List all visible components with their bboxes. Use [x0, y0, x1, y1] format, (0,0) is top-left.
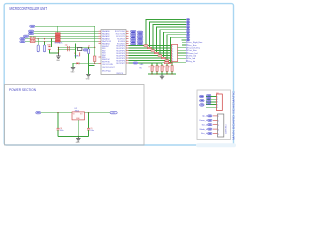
svg-text:1: 1: [218, 116, 219, 118]
capacitor C1: [37, 45, 39, 52]
osc wire row A: [58, 46, 94, 48]
J4 row pills: [208, 115, 213, 135]
ground G3: [86, 74, 90, 77]
svg-text:Key_Int: Key_Int: [188, 60, 195, 63]
row8 diode wire: [162, 62, 186, 64]
svg-text:R2 10k: R2 10k: [30, 37, 36, 39]
staircase bus wires: [146, 20, 186, 64]
svg-text:Mode_k: Mode_k: [200, 129, 208, 131]
MCU left pin stubs: [99, 31, 102, 63]
regulator U2 7805: [72, 112, 85, 120]
button to ground wire: [49, 50, 58, 53]
svg-text:RE2/CS: RE2/CS: [117, 73, 124, 75]
power bottom wire: [58, 136, 89, 138]
capacitor C1 drop wire: [37, 39, 39, 45]
right port pins: [186, 42, 187, 62]
connector J4 bottom: [218, 114, 228, 137]
ground G2: [71, 67, 75, 70]
svg-text:R3 10k: R3 10k: [30, 40, 36, 42]
capacitor C9: [87, 128, 90, 130]
power input label: [36, 112, 41, 114]
svg-text:4: 4: [217, 104, 218, 106]
MCU right pin names: [115, 31, 126, 75]
svg-text:OSC1/CLKIN: OSC1/CLKIN: [102, 64, 113, 66]
svg-text:2: 2: [217, 99, 218, 101]
svg-text:2: 2: [218, 121, 219, 123]
svg-text:100n: 100n: [90, 130, 94, 132]
crystal X1: [78, 48, 82, 51]
connector section box: [197, 90, 231, 140]
ground G1: [56, 53, 60, 59]
mclr wire upper: [94, 47, 96, 56]
svg-text:5: 5: [217, 107, 218, 109]
reset button wire: [51, 39, 53, 47]
power section box: [5, 85, 145, 146]
svg-text:7: 7: [172, 60, 173, 62]
net label N2: [29, 33, 34, 35]
MCU right pin stubs: [126, 31, 129, 63]
ground G4: [160, 74, 164, 79]
svg-text:RD7/PSP7: RD7/PSP7: [116, 63, 125, 65]
mclr wire lower: [95, 62, 99, 64]
J2 net ovals: [199, 95, 204, 106]
svg-text:POWER SECTION: POWER SECTION: [9, 88, 36, 92]
connector J2 top: [216, 93, 222, 110]
svg-text:Down_k: Down_k: [199, 120, 207, 122]
left net wires: [25, 31, 99, 42]
connector J3 red box: [172, 44, 178, 62]
driver resistors row: [151, 66, 173, 72]
svg-text:OSC2/CLKOUT: OSC2/CLKOUT: [102, 67, 116, 69]
svg-text:C7: C7: [88, 46, 90, 48]
driver common wire: [148, 73, 176, 75]
pack to rail wire: [57, 26, 59, 32]
right port labels: [188, 41, 203, 63]
svg-text:MICROCONTROLLER UNIT: MICROCONTROLLER UNIT: [10, 6, 48, 11]
svg-text:Enc_k: Enc_k: [201, 133, 208, 135]
g3 stem: [88, 66, 90, 75]
driver resistor stubs: [152, 64, 172, 66]
reset button SW1: [48, 46, 51, 50]
hierarchical port bubbles: [186, 19, 190, 41]
capacitor C4 on osc row A: [68, 46, 70, 49]
svg-text:SW1: SW1: [47, 45, 51, 47]
net label N1: [29, 30, 34, 32]
right label column 1: [131, 30, 136, 45]
svg-text:Dis_Ind: Dis_Ind: [188, 58, 195, 60]
resistor R4 mclr pullup: [94, 56, 96, 62]
svg-text:MAIN BOARD SCHEMATIC: MAIN BOARD SCHEMATIC: [232, 90, 236, 140]
segment wires rows: [129, 46, 172, 64]
footer tint: [196, 143, 236, 147]
svg-text:R5: R5: [140, 68, 142, 70]
power output label: [110, 112, 117, 115]
regulator gnd branch: [77, 120, 79, 137]
vcc rail wire: [35, 26, 95, 47]
right port stub wires: [178, 42, 187, 58]
crystal lower stub: [79, 52, 81, 56]
power input wire: [41, 112, 73, 114]
d1 wire: [79, 62, 95, 64]
svg-text:CONN-SIL5: CONN-SIL5: [226, 124, 228, 134]
svg-text:Tact_Ena: Tact_Ena: [188, 49, 197, 52]
MCU chip U1 body: [101, 30, 126, 75]
diode D2: [164, 62, 169, 64]
right label column 2: [137, 31, 143, 45]
svg-text:22p: 22p: [65, 44, 68, 46]
wire label on row8: [133, 62, 138, 64]
junction dots osc: [58, 47, 95, 54]
resistor R2 on row4: [30, 38, 35, 40]
svg-text:5: 5: [218, 134, 219, 136]
power junction dots: [57, 112, 58, 113]
c6 to ground wire: [89, 54, 95, 66]
MCU left pin names: [102, 30, 116, 73]
resistor R3 on row5: [30, 41, 35, 43]
net label N4: [20, 38, 25, 40]
svg-text:1: 1: [217, 96, 218, 98]
svg-text:8MHz: 8MHz: [75, 56, 80, 58]
bubble9 stub wire: [182, 39, 187, 41]
svg-text:Down_Ind: Down_Ind: [188, 53, 197, 55]
svg-text:3: 3: [217, 102, 218, 104]
junction dots left: [38, 38, 53, 42]
vcc rail label: [30, 25, 35, 27]
sheet frame: [4, 4, 233, 145]
crystal label: [83, 49, 88, 51]
diode D1: [77, 62, 80, 64]
J2 wire labels: [207, 94, 211, 104]
J4 row labels: [199, 116, 207, 136]
svg-text:MCLR/Vpp: MCLR/Vpp: [102, 71, 111, 73]
svg-text:3: 3: [218, 125, 219, 127]
svg-text:Enc_Ena: Enc_Ena: [188, 45, 197, 47]
J2 wires: [206, 97, 217, 108]
svg-text:100n: 100n: [60, 130, 64, 132]
svg-text:4: 4: [218, 129, 219, 131]
ladder resistors: [144, 45, 172, 64]
power output wire: [85, 112, 111, 114]
capacitor C8: [57, 128, 60, 130]
ground G5: [76, 137, 80, 142]
svg-text:RESPACK: RESPACK: [54, 41, 63, 44]
osc wire row B: [58, 49, 75, 51]
driver resistor texts: [149, 67, 171, 69]
cap C8 branch: [57, 113, 59, 128]
c6 drop wire: [88, 47, 90, 49]
net label N3: [24, 35, 29, 37]
svg-text:Enc_Right_Ena: Enc_Right_Ena: [188, 41, 203, 44]
resistor pack RN1: [54, 33, 63, 45]
d1 to ground wire: [73, 63, 77, 67]
cap C9 branch: [88, 113, 90, 128]
crystal X1 vertical link: [75, 44, 77, 59]
J4 arrows: [213, 116, 218, 134]
svg-text:TactLeft_Ena: TactLeft_Ena: [188, 47, 201, 50]
capacitor C5 on osc row B: [68, 49, 70, 52]
osc left vertical: [57, 47, 59, 53]
capacitor C2: [43, 45, 45, 52]
net label N5: [20, 41, 25, 43]
capacitor C2 drop wire: [44, 42, 46, 45]
capacitor C6 near mclr: [88, 49, 90, 54]
